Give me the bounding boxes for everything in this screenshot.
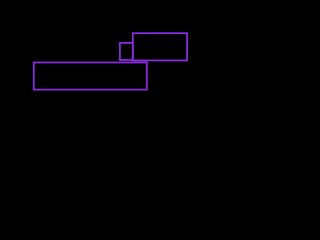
box large bottom-left <box>34 63 147 90</box>
box top-right <box>133 33 187 60</box>
box small upper-middle <box>120 43 133 60</box>
